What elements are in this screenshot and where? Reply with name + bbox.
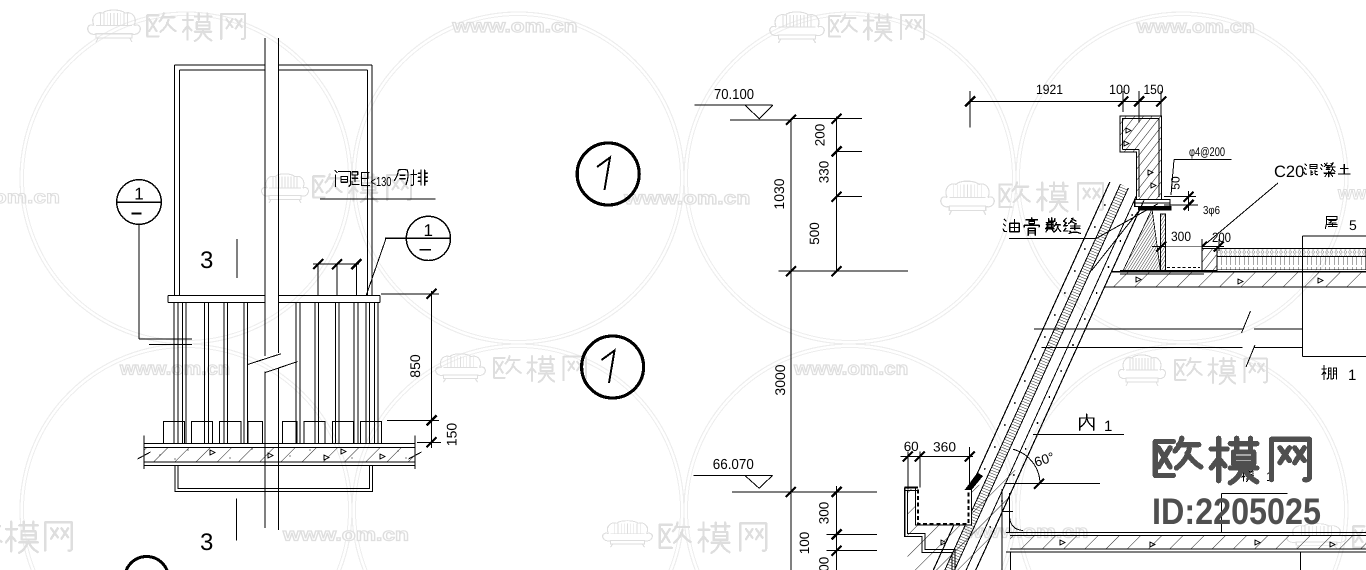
svg-text:500: 500 — [807, 222, 822, 245]
roof gravel layer — [1217, 249, 1366, 257]
eave drip tip (black) — [965, 473, 984, 491]
svg-text:3: 3 — [200, 529, 213, 556]
svg-text:50: 50 — [1169, 176, 1183, 190]
svg-text:70.100: 70.100 — [714, 87, 754, 103]
svg-text:1921: 1921 — [1036, 82, 1063, 97]
C20 fill strip — [1202, 249, 1217, 271]
svg-text:www.om.cn: www.om.cn — [451, 16, 577, 36]
svg-text:300: 300 — [816, 557, 831, 570]
section circle 1-1 right — [406, 216, 450, 260]
gutter bottom thick line — [1120, 270, 1204, 272]
hanger channel below slab — [175, 466, 373, 492]
dark site watermark — [1155, 438, 1201, 475]
interior wall below slope — [1001, 489, 1003, 570]
svg-text:www.om.cn: www.om.cn — [0, 187, 60, 207]
spacing dimension — [313, 263, 359, 265]
left railing panel frame outer — [174, 64, 265, 66]
section circle 1-1 left — [117, 180, 162, 225]
svg-text:1: 1 — [1104, 418, 1112, 435]
svg-text:5: 5 — [1349, 217, 1357, 233]
curb blocks at baluster base — [164, 422, 185, 444]
flat roof slab (hatched) — [1104, 272, 1366, 287]
svg-text:<130: <130 — [371, 174, 392, 189]
svg-text:1: 1 — [1348, 367, 1356, 384]
eave gutter trough — [916, 488, 972, 526]
svg-text:200: 200 — [1212, 230, 1231, 245]
label NEI 1 — [1080, 414, 1094, 430]
slab aggregate marks — [210, 450, 215, 455]
60 degree angle — [1005, 483, 1100, 485]
svg-text:3000: 3000 — [772, 364, 788, 395]
svg-text:330: 330 — [816, 161, 831, 184]
parapet wall (hatched) — [1120, 116, 1162, 200]
label WU 5 — [1325, 217, 1337, 229]
sealant wedge (dense hatch) — [1123, 209, 1161, 271]
ceiling lines with break — [1034, 328, 1243, 330]
parapet stem below cap — [1161, 214, 1166, 271]
svg-text:150: 150 — [444, 423, 460, 447]
secondary dimension line top — [836, 117, 838, 272]
oil sealant note — [1003, 219, 1019, 231]
svg-text:300: 300 — [1171, 229, 1191, 244]
secondary dimension line bottom — [836, 486, 838, 570]
dimension 300/200 — [1152, 246, 1224, 248]
section circle bottom (partial) — [125, 557, 169, 570]
svg-text:150: 150 — [1144, 82, 1164, 97]
svg-text:www.om.cn: www.om.cn — [1136, 17, 1255, 37]
center post (double line) — [264, 38, 266, 356]
watermark sofa logos and site name — [88, 10, 140, 42]
dimension 850 / 150 — [381, 293, 439, 295]
svg-text:1030: 1030 — [771, 178, 787, 209]
label PENG 1 — [1322, 365, 1336, 379]
svg-text:φ4@200: φ4@200 — [1189, 145, 1225, 159]
spacing note text — [335, 171, 351, 187]
label LOU 1 (behind watermark) — [1242, 470, 1254, 482]
gutter dimension 60/360 — [901, 456, 974, 458]
sloped slab hatch strip — [945, 184, 1129, 570]
svg-text:ID:2205025: ID:2205025 — [1152, 491, 1321, 532]
leader from circle to rail — [138, 224, 140, 338]
svg-text:100: 100 — [1109, 82, 1130, 97]
parapet coping cap — [1135, 200, 1170, 207]
svg-text:850: 850 — [407, 354, 423, 378]
svg-text:300: 300 — [816, 502, 831, 525]
handrail — [168, 295, 265, 297]
sloped roof lines — [933, 182, 1110, 570]
eave wall mass (hatched) — [908, 470, 1022, 570]
eave cornice profile — [905, 488, 952, 570]
svg-text:www.om.cn: www.om.cn — [282, 525, 409, 545]
svg-text:www.om.cn: www.om.cn — [793, 359, 908, 379]
svg-text:60: 60 — [904, 439, 919, 454]
interior floor slab — [1006, 532, 1366, 534]
roof gutter box (top) — [1165, 247, 1202, 271]
detail circle 1 lower — [582, 336, 644, 398]
svg-text:360: 360 — [933, 440, 956, 455]
floor slab — [144, 443, 415, 445]
svg-text:www.o: www.o — [1337, 183, 1366, 203]
post break symbol — [248, 354, 281, 365]
svg-text:200: 200 — [813, 124, 828, 147]
left railing panel frame inner — [179, 69, 265, 71]
main vertical dimension line — [790, 120, 792, 570]
svg-text:1: 1 — [134, 185, 143, 204]
svg-text:www.om.cn: www.om.cn — [623, 188, 750, 208]
50 dimension — [1164, 196, 1196, 198]
roof type bracket — [1302, 235, 1366, 237]
svg-text:1: 1 — [424, 221, 433, 240]
extension lines — [791, 118, 862, 120]
detail circle 1 upper — [577, 143, 639, 205]
balusters — [173, 303, 175, 444]
svg-text:3: 3 — [200, 247, 213, 274]
top dimension 1921/100/150 — [970, 101, 1161, 103]
roof insulation layer (comb) — [1217, 256, 1366, 270]
svg-text:100: 100 — [797, 532, 812, 555]
svg-text:C20: C20 — [1274, 163, 1304, 181]
svg-text:3φ6: 3φ6 — [1203, 205, 1220, 217]
svg-text:66.070: 66.070 — [713, 457, 754, 473]
